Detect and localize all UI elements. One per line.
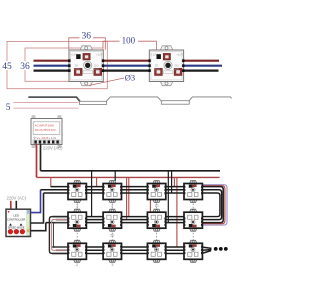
profile tab rect 1 [80, 101, 107, 104]
svg-text:Ø3: Ø3 [125, 73, 135, 83]
grid module r3c2 [103, 240, 122, 262]
controller black wire to row 2 [31, 223, 46, 231]
row1 wires [41, 187, 185, 193]
right loop purple outer [203, 185, 227, 225]
psu red wire down [36, 144, 38, 178]
grid module r1c3 [147, 181, 166, 203]
dimension line 100 [103, 41, 156, 51]
psu black wire down [40, 144, 42, 171]
svg-text:DC OUTPUT:12V: DC OUTPUT:12V [35, 128, 56, 132]
module numbers [76, 204, 159, 267]
grid module r2c2 [103, 209, 122, 231]
red drop below r1c3 [149, 200, 151, 217]
black drop to row2 [91, 171, 93, 217]
wire blue middle [103, 65, 149, 67]
row2 wires [46, 217, 185, 223]
label 45 [1, 61, 13, 72]
module chain dashes r2-r3 [77, 233, 193, 240]
dimension line 5 bottom [14, 107, 79, 109]
LED controller [6, 209, 31, 236]
svg-text:100: 100 [122, 36, 136, 46]
left loop pink mid [52, 220, 69, 251]
row3 wires [52, 247, 185, 254]
dimension line 5 top [14, 102, 79, 104]
LED module M2 [148, 46, 184, 86]
red drop to row1 [96, 177, 98, 186]
wire red middle [103, 60, 149, 62]
wire black left [34, 69, 70, 71]
svg-text:⚲ V+ -OUT+ L N: ⚲ V+ -OUT+ L N [34, 136, 56, 140]
svg-text:220V (AC): 220V (AC) [43, 146, 63, 151]
continuation dots [214, 247, 218, 251]
svg-text:1: 1 [76, 204, 78, 208]
svg-text:36: 36 [20, 62, 30, 72]
svg-text:LED: LED [13, 214, 20, 218]
black drop to module r1c2 [114, 171, 116, 181]
svg-text:GND: GND [93, 67, 99, 71]
row3 right tail [202, 247, 212, 248]
left loop black outer [49, 217, 68, 254]
svg-text:+12V: +12V [96, 52, 103, 56]
profile right top [189, 97, 231, 101]
red drop to row1 c3c4 [173, 177, 175, 186]
svg-text:CONTROLLER: CONTROLLER [7, 217, 25, 221]
wire black right [185, 69, 219, 71]
svg-text:GND: GND [174, 67, 180, 71]
label 100 [120, 36, 139, 46]
wire red left [34, 60, 70, 62]
outer dimension rectangle 45 [7, 41, 107, 88]
svg-text:45: 45 [2, 62, 12, 72]
label 36 top [80, 31, 94, 42]
profile bump [107, 97, 162, 101]
grid module r1c1 [68, 181, 87, 203]
svg-text:3: 3 [111, 263, 113, 267]
wire blue right [185, 65, 223, 67]
svg-text:36: 36 [82, 31, 92, 41]
grid module r3c3 [147, 240, 166, 262]
svg-text:DI: DI [155, 64, 158, 68]
wire black middle [103, 69, 149, 71]
grid module r2c4 [184, 209, 203, 231]
profile module dark top [29, 97, 80, 101]
left loop grey inner [54, 223, 69, 247]
grid module r2c3 [147, 209, 166, 231]
red drop to row1 left [50, 177, 52, 187]
svg-text:20: 20 [110, 233, 114, 237]
right loop red [203, 186, 225, 224]
LED module M1 [68, 46, 104, 86]
grid module r1c4 [184, 181, 203, 203]
profile tab rect 2 [161, 101, 189, 105]
svg-text:GND: GND [154, 67, 160, 71]
black drop pair c3c4 [167, 171, 169, 223]
inner dimension rectangle 36 [25, 48, 103, 81]
controller AC red wire [10, 201, 12, 210]
right loop black outer [202, 187, 224, 223]
svg-text:220V (AC): 220V (AC) [7, 196, 27, 201]
red drop pair to row2 [126, 177, 128, 219]
controller AC black wire [15, 201, 17, 210]
grid module r1c2 [103, 181, 122, 203]
right loop black inner [202, 193, 220, 217]
svg-text:2: 2 [111, 204, 113, 208]
red bus wire [37, 176, 220, 178]
controller black wire to row 1 [31, 193, 44, 223]
right loop black mid [202, 190, 222, 220]
black bus wire [41, 170, 221, 172]
controller blue wire to row 1 [31, 190, 41, 213]
grid module r3c1 [68, 240, 87, 262]
svg-text:+12V: +12V [176, 52, 183, 56]
svg-text:10: 10 [154, 204, 158, 208]
power supply unit [31, 116, 63, 151]
label 36 left [20, 61, 32, 72]
module chain dashes r1-r2 [77, 204, 193, 209]
svg-text:AC INPUT:100V: AC INPUT:100V [35, 124, 54, 128]
svg-text:2: 2 [76, 263, 78, 267]
svg-text:5: 5 [6, 103, 11, 113]
svg-text:GND: GND [74, 67, 80, 71]
label diameter 3 [89, 73, 135, 86]
grid module r2c1 [68, 209, 87, 231]
svg-text:DI: DI [75, 64, 78, 68]
dimension bracket 36 top [69, 38, 106, 50]
red drop to row3 [176, 177, 178, 246]
wire blue left [34, 65, 70, 67]
wire red right [185, 60, 220, 62]
grid module r3c4 [184, 240, 203, 262]
